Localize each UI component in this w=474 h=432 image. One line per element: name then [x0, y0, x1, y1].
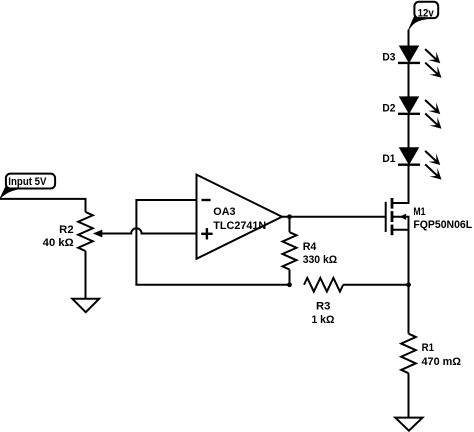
svg-text:M1: M1 — [413, 206, 425, 218]
wire node to R4 — [289, 217, 291, 232]
svg-text:D1: D1 — [382, 153, 395, 165]
LED D1 — [398, 148, 420, 165]
wire op-amp output to M1 gate — [282, 216, 386, 218]
op-amp OA3 TLC2741N — [197, 175, 283, 259]
potentiometer R2 — [78, 212, 102, 251]
LED D3 emission arrows — [425, 49, 441, 78]
LED D2 — [398, 97, 420, 114]
ground (left) — [72, 299, 99, 313]
wire R3 to node — [343, 284, 408, 286]
LED D2 emission arrows — [425, 100, 441, 129]
svg-text:D3: D3 — [382, 51, 395, 63]
svg-text:12v: 12v — [418, 8, 435, 20]
wire feedback bottom to node — [135, 284, 289, 286]
svg-text:330 kΩ: 330 kΩ — [303, 254, 338, 266]
junction node op-amp output / R4 — [287, 214, 292, 219]
svg-text:R4: R4 — [303, 241, 318, 253]
transistor M1 (N-MOSFET FQP50N06L) — [386, 198, 409, 235]
wire node to R1 — [408, 285, 410, 334]
svg-text:40 kΩ: 40 kΩ — [43, 237, 74, 249]
wire D2 cathode down — [408, 114, 410, 149]
resistor R3 — [304, 278, 343, 292]
svg-text:Input 5V: Input 5V — [8, 176, 47, 188]
junction node R4 / R3 / feedback — [287, 282, 292, 287]
svg-text:470 mΩ: 470 mΩ — [422, 356, 462, 368]
ground (right) — [395, 418, 422, 431]
svg-text:R1: R1 — [422, 342, 434, 354]
svg-text:TLC2741N: TLC2741N — [213, 220, 266, 232]
svg-text:R2: R2 — [59, 224, 73, 236]
LED D3 — [398, 46, 420, 63]
wire D3 cathode down — [408, 63, 410, 98]
wire Input 5V to R2 top — [0, 199, 86, 212]
svg-text:D2: D2 — [382, 102, 395, 114]
junction node M1 source / R3 / R1 — [406, 282, 411, 287]
svg-text:1 kΩ: 1 kΩ — [311, 314, 334, 326]
wire 12v to D3 anode — [408, 30, 410, 48]
resistor R4 — [283, 232, 297, 269]
net 12v callout — [408, 2, 438, 31]
net Input 5V callout — [0, 174, 55, 199]
svg-text:OA3: OA3 — [213, 206, 235, 218]
wire R2 bottom to ground — [85, 251, 87, 299]
wire op-amp - input (feedback) — [136, 199, 196, 201]
wire M1 source to node — [408, 230, 410, 285]
wire D1 cathode to M1 drain — [392, 165, 409, 204]
svg-text:FQP50N06L: FQP50N06L — [413, 219, 472, 231]
svg-text:R3: R3 — [316, 300, 330, 312]
wire R1 to ground — [408, 373, 410, 418]
LED D1 emission arrows — [425, 151, 441, 180]
wire R2 wiper to op-amp + input (hops over feedback wire) — [102, 228, 197, 233]
resistor R1 — [401, 334, 416, 374]
wire feedback vertical — [135, 199, 137, 285]
wire R4 to node — [289, 270, 291, 285]
